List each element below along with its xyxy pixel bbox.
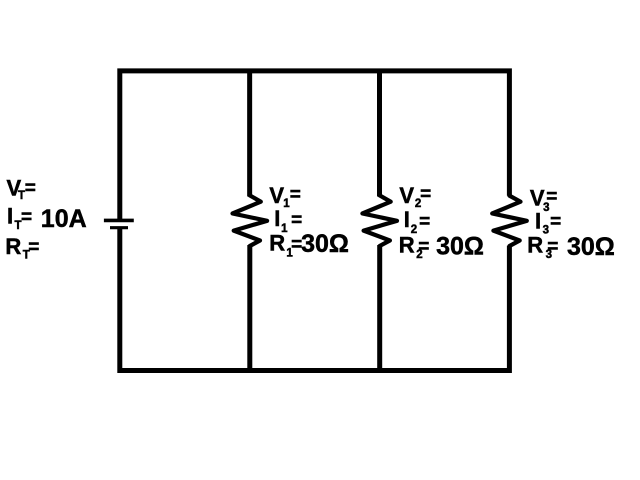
svg-text:30Ω: 30Ω	[567, 233, 615, 261]
svg-text:=: =	[291, 210, 302, 231]
svg-text:I: I	[404, 207, 410, 232]
svg-text:R: R	[399, 232, 415, 257]
resistor R3	[492, 196, 527, 246]
svg-text:I: I	[535, 209, 541, 234]
svg-text:I: I	[7, 203, 13, 228]
svg-text:=: =	[550, 212, 561, 233]
svg-text:=: =	[290, 185, 301, 206]
svg-text:=: =	[419, 211, 430, 232]
svg-text:=: =	[25, 178, 36, 199]
resistor R2	[362, 195, 397, 246]
wire R1 branch	[247, 71, 252, 371]
svg-text:I: I	[274, 206, 280, 231]
svg-text:=: =	[547, 236, 558, 257]
svg-text:=: =	[418, 236, 429, 257]
wire R2 branch	[377, 71, 382, 371]
svg-text:3: 3	[543, 225, 549, 237]
svg-text:=: =	[546, 187, 557, 208]
svg-text:30Ω: 30Ω	[436, 232, 484, 260]
svg-text:10A: 10A	[41, 205, 87, 233]
svg-text:R: R	[269, 230, 285, 255]
svg-text:=: =	[420, 184, 431, 205]
svg-text:V: V	[399, 183, 414, 208]
resistor R1	[233, 195, 268, 246]
wire top + left upper + right upper	[120, 71, 510, 220]
svg-text:30Ω: 30Ω	[301, 230, 349, 258]
battery source short bar	[110, 226, 128, 229]
wire bottom + left lower + right lower	[120, 228, 510, 371]
svg-text:R: R	[5, 234, 21, 259]
svg-text:=: =	[21, 207, 32, 228]
svg-text:R: R	[527, 232, 543, 257]
svg-text:V: V	[269, 183, 284, 208]
svg-text:=: =	[28, 237, 39, 258]
battery source long bar	[104, 219, 134, 223]
